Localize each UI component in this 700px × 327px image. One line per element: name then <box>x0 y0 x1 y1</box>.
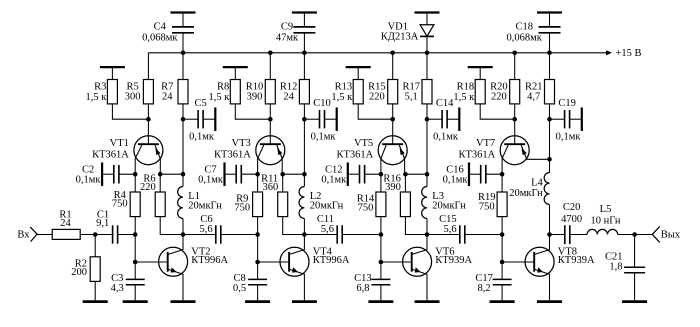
resistor R2 <box>71 235 100 282</box>
transistor VT7 <box>458 119 549 174</box>
svg-text:750: 750 <box>112 198 128 209</box>
capacitor C13 <box>354 262 390 300</box>
resistor R4 <box>112 174 140 237</box>
transistor VT4 <box>258 235 350 301</box>
resistor R5 <box>125 53 154 119</box>
svg-text:КД213А: КД213А <box>381 32 419 43</box>
svg-text:C10: C10 <box>313 98 331 109</box>
output terminal Вых <box>652 227 681 243</box>
svg-text:КТ939А: КТ939А <box>558 255 595 266</box>
svg-text:1,5 к: 1,5 к <box>86 92 108 103</box>
capacitor C17 <box>475 262 511 300</box>
svg-text:C19: C19 <box>558 98 576 109</box>
resistor R1 <box>52 209 80 239</box>
wire <box>500 235 505 265</box>
svg-text:VT3: VT3 <box>232 138 251 149</box>
svg-text:КТ361А: КТ361А <box>458 149 495 160</box>
capacitor C3 <box>111 262 145 300</box>
capacitor C7 <box>198 162 260 186</box>
capacitor C11 <box>304 214 381 244</box>
ground <box>83 281 108 301</box>
svg-text:5,1: 5,1 <box>405 92 418 103</box>
svg-text:C4: C4 <box>154 22 167 33</box>
ground <box>292 300 317 303</box>
capacitor C4 <box>142 13 195 56</box>
capacitor C6 <box>183 214 258 244</box>
svg-text:750: 750 <box>234 202 250 213</box>
svg-text:20мкГн: 20мкГн <box>432 201 466 212</box>
capacitor C9 <box>276 13 317 56</box>
svg-text:5,6: 5,6 <box>321 224 334 235</box>
diode VD1 <box>381 13 440 56</box>
svg-text:8,2: 8,2 <box>478 283 491 294</box>
resistor R12 <box>280 53 310 122</box>
capacitor C18 <box>507 13 562 56</box>
wire <box>112 104 150 122</box>
capacitor C16 <box>443 162 505 186</box>
inductor L5 <box>587 204 621 234</box>
inductor L1 <box>178 174 223 237</box>
svg-text:1,5 к: 1,5 к <box>453 92 475 103</box>
transistor VT2 <box>135 235 228 301</box>
ground <box>490 300 515 303</box>
wire <box>133 235 138 265</box>
resistor R6 <box>140 172 185 235</box>
transistor VT6 <box>381 235 473 301</box>
ground <box>622 300 647 303</box>
svg-text:390: 390 <box>247 92 263 103</box>
svg-text:КТ939А: КТ939А <box>435 255 472 266</box>
capacitor C20 <box>550 202 588 244</box>
wire <box>358 104 395 122</box>
resistor R15 <box>368 51 398 120</box>
wire <box>255 235 260 265</box>
svg-text:КТ996А: КТ996А <box>191 255 228 266</box>
wire <box>379 235 384 265</box>
svg-text:47мк: 47мк <box>276 32 299 43</box>
svg-text:750: 750 <box>479 201 495 212</box>
input terminal Вх <box>17 227 37 242</box>
svg-text:4,3: 4,3 <box>111 283 124 294</box>
svg-text:200: 200 <box>71 267 87 278</box>
inductor L4 <box>509 173 552 237</box>
svg-text:Вых: Вых <box>661 230 681 241</box>
svg-text:0,5: 0,5 <box>233 283 246 294</box>
wire <box>480 104 517 122</box>
svg-text:0,068мк: 0,068мк <box>507 32 543 43</box>
resistor R16 <box>383 172 429 235</box>
capacitor C12 <box>321 162 383 186</box>
svg-text:0,1мк: 0,1мк <box>76 174 102 185</box>
resistor R19 <box>478 174 507 237</box>
svg-text:1,5 к: 1,5 к <box>331 92 353 103</box>
svg-text:+15 В: +15 В <box>616 48 642 59</box>
resistor R21 <box>525 53 555 122</box>
svg-text:220: 220 <box>140 182 156 193</box>
wire <box>37 234 52 236</box>
svg-text:390: 390 <box>385 182 401 193</box>
transistor VT1 <box>92 119 163 174</box>
resistor R8 <box>208 67 247 104</box>
svg-text:VT1: VT1 <box>110 138 129 149</box>
svg-text:6,8: 6,8 <box>356 283 369 294</box>
transistor VT5 <box>336 119 407 174</box>
svg-text:220: 220 <box>491 92 507 103</box>
svg-text:9,1: 9,1 <box>96 218 109 229</box>
transistor VT3 <box>214 119 285 174</box>
resistor R11 <box>261 172 307 235</box>
svg-text:КТ361А: КТ361А <box>92 149 129 160</box>
resistor R10 <box>246 51 276 120</box>
svg-text:750: 750 <box>358 202 374 213</box>
capacitor C2 <box>76 162 138 186</box>
svg-text:5,6: 5,6 <box>443 224 456 235</box>
svg-text:220: 220 <box>369 92 385 103</box>
svg-text:0,1мк: 0,1мк <box>443 174 469 185</box>
ground <box>537 300 562 303</box>
capacitor C15 <box>427 214 502 244</box>
resistor R13 <box>331 67 370 104</box>
svg-text:C14: C14 <box>436 98 454 109</box>
svg-text:24: 24 <box>60 218 71 229</box>
wire <box>80 232 112 237</box>
svg-text:КТ996А: КТ996А <box>313 255 350 266</box>
resistor R3 <box>86 67 125 104</box>
svg-text:0,1мк: 0,1мк <box>198 174 224 185</box>
svg-text:0,1мк: 0,1мк <box>189 132 215 143</box>
svg-text:300: 300 <box>125 92 141 103</box>
inductor L3 <box>422 174 467 237</box>
resistor R9 <box>234 174 262 237</box>
svg-text:24: 24 <box>283 92 294 103</box>
capacitor C1 <box>96 209 118 243</box>
transistor VT8 <box>502 235 595 301</box>
svg-text:20мкГн: 20мкГн <box>188 201 222 212</box>
capacitor C19 <box>550 98 582 143</box>
capacitor C8 <box>233 262 267 300</box>
wire <box>303 119 305 174</box>
svg-text:0,068мк: 0,068мк <box>142 32 178 43</box>
wire <box>618 232 653 237</box>
svg-text:Вх: Вх <box>17 229 30 240</box>
svg-text:L5: L5 <box>600 204 612 215</box>
ground <box>415 300 440 303</box>
svg-text:C18: C18 <box>515 22 533 33</box>
svg-text:20мкГн: 20мкГн <box>509 188 543 199</box>
svg-text:1,5 к: 1,5 к <box>208 92 230 103</box>
svg-text:C9: C9 <box>281 22 293 33</box>
wire <box>426 119 428 174</box>
svg-text:0,1мк: 0,1мк <box>433 132 459 143</box>
resistor R14 <box>357 174 386 237</box>
capacitor C10 <box>304 98 336 143</box>
capacitor C5 <box>183 98 215 143</box>
wire <box>182 119 184 174</box>
resistor R18 <box>453 67 492 104</box>
svg-text:1,8: 1,8 <box>609 262 622 273</box>
svg-text:VT5: VT5 <box>354 138 373 149</box>
svg-text:0,1мк: 0,1мк <box>321 174 347 185</box>
svg-text:VT7: VT7 <box>476 138 495 149</box>
wire <box>235 104 272 122</box>
svg-text:C20: C20 <box>563 202 581 213</box>
resistor R7 <box>161 53 188 122</box>
svg-text:КТ361А: КТ361А <box>214 149 251 160</box>
ground <box>123 300 148 303</box>
resistor R17 <box>402 53 432 122</box>
svg-text:C5: C5 <box>194 98 206 109</box>
wire <box>547 119 552 172</box>
ground <box>171 300 196 303</box>
ground <box>368 300 393 303</box>
resistor R20 <box>490 51 520 120</box>
wire <box>118 234 136 236</box>
ground <box>245 300 270 303</box>
svg-text:10 нГн: 10 нГн <box>590 215 620 226</box>
svg-text:24: 24 <box>162 92 173 103</box>
inductor L2 <box>299 174 344 237</box>
svg-text:0,1мк: 0,1мк <box>311 132 337 143</box>
svg-text:КТ361А: КТ361А <box>336 149 373 160</box>
capacitor C14 <box>427 98 459 143</box>
svg-text:0,1мк: 0,1мк <box>556 132 582 143</box>
svg-text:L4: L4 <box>531 178 543 189</box>
svg-text:4,7: 4,7 <box>527 92 540 103</box>
svg-text:5,6: 5,6 <box>199 224 212 235</box>
svg-text:20мкГн: 20мкГн <box>310 201 344 212</box>
svg-text:360: 360 <box>262 182 278 193</box>
svg-text:4700: 4700 <box>561 214 582 225</box>
capacitor C21 <box>605 235 645 301</box>
+15V supply rail <box>148 48 641 59</box>
